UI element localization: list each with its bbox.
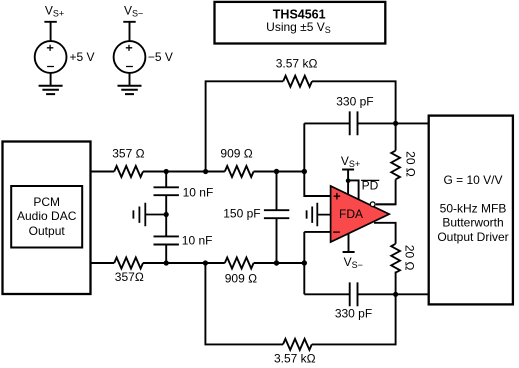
svg-text:Audio DAC: Audio DAC bbox=[17, 209, 77, 223]
svg-text:Output Driver: Output Driver bbox=[437, 230, 508, 244]
svg-text:150 pF: 150 pF bbox=[223, 206, 260, 220]
svg-text:+5 V: +5 V bbox=[70, 50, 95, 64]
svg-text:3.57 kΩ: 3.57 kΩ bbox=[276, 57, 318, 71]
svg-text:VS−: VS− bbox=[344, 255, 363, 270]
svg-text:VS+: VS+ bbox=[341, 154, 360, 169]
svg-text:3.57 kΩ: 3.57 kΩ bbox=[274, 351, 316, 365]
svg-text:20 Ω: 20 Ω bbox=[404, 151, 418, 177]
svg-text:−5 V: −5 V bbox=[148, 50, 173, 64]
svg-text:357Ω: 357Ω bbox=[115, 270, 144, 284]
svg-text:357 Ω: 357 Ω bbox=[112, 146, 144, 160]
svg-text:909 Ω: 909 Ω bbox=[225, 271, 257, 285]
svg-text:Using ±5 VS: Using ±5 VS bbox=[266, 20, 331, 35]
svg-text:10 nF: 10 nF bbox=[182, 233, 213, 247]
svg-text:G = 10 V/V: G = 10 V/V bbox=[443, 173, 502, 187]
svg-text:FDA: FDA bbox=[339, 207, 363, 221]
svg-text:20 Ω: 20 Ω bbox=[403, 245, 417, 271]
svg-text:909 Ω: 909 Ω bbox=[220, 146, 252, 160]
svg-text:10 nF: 10 nF bbox=[183, 185, 214, 199]
svg-text:Butterworth: Butterworth bbox=[442, 216, 503, 230]
svg-text:50-kHz MFB: 50-kHz MFB bbox=[440, 201, 507, 215]
svg-text:VS−: VS− bbox=[124, 4, 143, 19]
svg-text:PCM: PCM bbox=[33, 195, 60, 209]
svg-text:Output: Output bbox=[29, 224, 66, 238]
svg-text:330 pF: 330 pF bbox=[335, 307, 372, 321]
svg-text:330 pF: 330 pF bbox=[336, 95, 373, 109]
svg-text:VS+: VS+ bbox=[45, 4, 64, 19]
